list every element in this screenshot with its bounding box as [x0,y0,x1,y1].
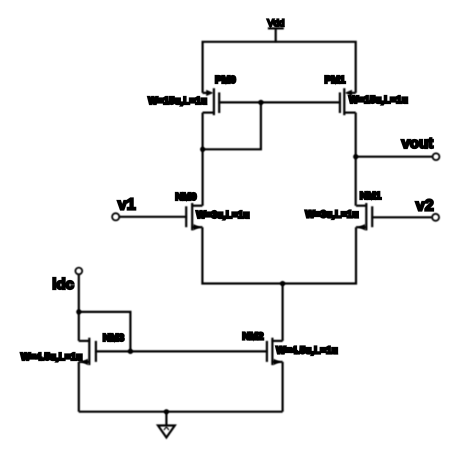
transistor PM0 [203,88,220,115]
node ground junction [164,409,169,414]
svg-text:W=4.5u,L=1u: W=4.5u,L=1u [276,345,338,356]
node idc junction [76,309,81,314]
wire PM0 diode connection (drain to gate) [203,102,261,149]
terminal v1 pin circle [112,213,119,220]
transistor NM0 [186,203,202,230]
wire NM1 gate to v2 [372,216,432,218]
svg-text:Vdd: Vdd [267,18,284,29]
transistor NM2 [267,338,283,365]
wire idc down to NM3 drain [78,274,80,341]
svg-text:W=15u,L=1u: W=15u,L=1u [148,96,207,107]
wire ground rail [79,411,283,413]
wire Vdd top rail [203,42,356,93]
terminal v2 pin circle [432,214,439,221]
wire PM1 drain down to NM1 drain [355,113,357,206]
svg-text:vout: vout [402,135,434,152]
transistor NM3 [79,338,96,365]
svg-text:PM1: PM1 [325,74,346,86]
svg-text:W=3u,L=1u: W=3u,L=1u [196,210,249,221]
wire PM0 drain down to NM0 drain [202,113,204,206]
transistor NM1 [356,203,372,230]
terminal vout pin circle [433,153,440,160]
terminal idc pin circle [75,268,82,275]
ground [158,412,175,438]
node NM3 gate junction [128,349,133,354]
wire PM0-PM1 gate line [219,101,340,103]
wire NM2 source down to ground rail [282,362,284,412]
svg-text:NM2: NM2 [242,331,264,343]
svg-text:v2: v2 [416,197,434,214]
transistor PM1 [340,88,356,115]
wire NM0 source to tail node [202,227,282,283]
node vout junction [353,154,358,159]
wire NM3 diode connection (drain to gate) [79,312,131,352]
wire NM3 source down to ground rail [78,362,80,412]
wire v1 to NM0 gate [119,216,186,218]
svg-text:W=4.5u,L=1u: W=4.5u,L=1u [21,352,83,363]
svg-text:W=15u,L=1u: W=15u,L=1u [349,95,408,106]
wire NM1 source to tail node [283,227,356,283]
svg-text:PM0: PM0 [215,74,236,86]
svg-text:v1: v1 [118,197,136,214]
node mirror gate junction [258,100,263,105]
node PM0 drain junction [200,147,205,152]
wire NM3 gate to NM2 gate [96,350,267,352]
svg-text:NM3: NM3 [103,332,125,344]
node tail junction [280,281,285,286]
wire vout [356,156,433,158]
svg-text:NM0: NM0 [175,191,197,203]
Vdd power symbol [268,28,284,41]
wire tail node down to NM2 drain [282,284,284,341]
svg-text:NM1: NM1 [360,190,382,202]
svg-text:W=3u,L=1u: W=3u,L=1u [305,210,358,221]
svg-text:idc: idc [52,276,74,293]
